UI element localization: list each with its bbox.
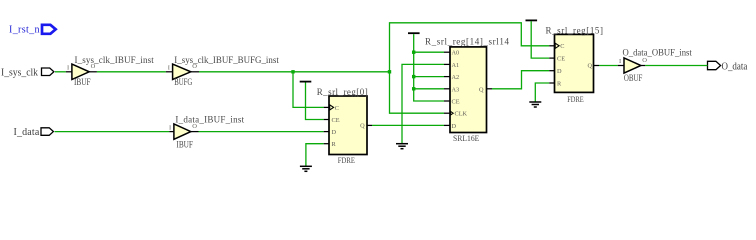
svg-text:Q: Q (479, 86, 484, 93)
stub SRL D (444, 124, 450, 126)
svg-text:I_sys_clk_IBUF_inst: I_sys_clk_IBUF_inst (75, 55, 155, 65)
svg-text:I: I (619, 58, 621, 65)
svg-text:I: I (67, 65, 69, 72)
wire OBUF out to O_data port (645, 65, 707, 67)
svg-text:CE: CE (557, 56, 565, 63)
ground below FDRE0 (300, 166, 312, 171)
junction VCC A2 (412, 75, 415, 78)
wire clock branch down to SRL16E CLK (390, 72, 445, 113)
svg-text:Q: Q (587, 62, 592, 69)
svg-text:A2: A2 (452, 74, 460, 81)
stub FDRE15 C (549, 45, 554, 47)
stub IBUF2 in (169, 131, 174, 133)
svg-text:A0: A0 (452, 50, 460, 57)
wire VCC to FDRE15 CE (531, 21, 549, 58)
svg-text:I_sys_clk: I_sys_clk (1, 67, 38, 78)
svg-text:O_data: O_data (722, 62, 748, 73)
stub FDRE0 CE (324, 119, 329, 121)
wire VCC branch to A0 (414, 51, 444, 53)
stub FDRE15 D (549, 70, 554, 72)
svg-text:O_data_OBUF_inst: O_data_OBUF_inst (623, 48, 693, 58)
stub SRL A0 (444, 51, 450, 53)
buffer IBUF I_sys_clk_IBUF_inst (67, 55, 154, 87)
svg-text:R_srl_reg[14]_srl14: R_srl_reg[14]_srl14 (425, 37, 510, 47)
ground below FDRE15 (529, 102, 541, 107)
svg-text:R_srl_reg[15]: R_srl_reg[15] (546, 26, 604, 36)
wire clock net: BUFG out main trunk (199, 71, 390, 73)
power VCC bar for SRL16E (408, 32, 420, 34)
svg-text:FDRE: FDRE (567, 95, 584, 104)
pin stubs black (66, 46, 645, 144)
svg-text:I_data_IBUF_inst: I_data_IBUF_inst (175, 114, 244, 124)
stub SRL A2 (444, 76, 450, 78)
junction clock main (388, 70, 391, 73)
stub IBUF1 out (89, 71, 97, 73)
svg-text:SRL16E: SRL16E (453, 134, 479, 143)
svg-text:Q: Q (360, 123, 365, 130)
svg-text:I_rst_n: I_rst_n (9, 25, 40, 36)
wire IBUF out to BUFG in (97, 71, 166, 73)
stub FDRE15 Q (594, 65, 600, 67)
port I_rst_n (selected, blue) (9, 25, 56, 36)
svg-text:C: C (335, 105, 339, 112)
svg-text:D: D (332, 129, 337, 136)
buffer OBUF O_data_OBUF_inst (619, 48, 692, 84)
wire FDRE15 Q to OBUF (599, 65, 618, 67)
wire I_data IBUF out to FDRE0 D (199, 131, 324, 133)
power VCC bar for FDRE15 CE (526, 20, 538, 22)
ground below SRL16E (396, 144, 408, 149)
svg-text:D: D (557, 68, 562, 75)
stub FDRE0 R (324, 143, 329, 145)
svg-text:C: C (560, 43, 564, 50)
flip-flop FDRE R_srl_reg[0] (317, 87, 368, 165)
stub FDRE0 C (324, 106, 329, 108)
svg-text:OBUF: OBUF (624, 73, 643, 83)
wire I_data port to IBUF (55, 131, 170, 133)
svg-text:FDRE: FDRE (338, 156, 355, 165)
stub SRL Q (487, 88, 493, 90)
port I_sys_clk (1, 67, 54, 78)
svg-text:A3: A3 (452, 86, 460, 93)
stub FDRE0 D (324, 131, 329, 133)
junction VCC A0 (412, 51, 415, 54)
junction VCC A3 (412, 87, 415, 90)
svg-text:CE: CE (332, 117, 340, 124)
buffer BUFG I_sys_clk_IBUF_BUFG_inst (168, 55, 280, 87)
wire VCC stem to SRL16E CE with branches (414, 34, 444, 101)
svg-text:D: D (452, 123, 457, 130)
stub BUFG out (191, 71, 199, 73)
wire SRL16E A1 to ground (402, 64, 444, 143)
wire FDRE0 Q to SRL16E D (372, 124, 444, 126)
stub SRL CE (444, 100, 450, 102)
svg-text:I_sys_clk_IBUF_BUFG_inst: I_sys_clk_IBUF_BUFG_inst (174, 55, 279, 65)
junction clock/FDRE0 (291, 70, 294, 73)
stub OBUF in (618, 65, 624, 67)
stub FDRE15 CE (549, 57, 554, 59)
wire I_sys_clk port to IBUF (55, 71, 66, 73)
svg-text:IBUF: IBUF (74, 77, 91, 87)
svg-text:CLK: CLK (455, 111, 468, 118)
wire FDRE0 R to ground (306, 144, 324, 166)
svg-text:I: I (169, 124, 171, 131)
stub IBUF2 out (191, 131, 199, 133)
stub OBUF out (641, 65, 645, 67)
svg-text:I_data: I_data (14, 127, 40, 138)
svg-text:BUFG: BUFG (174, 77, 192, 87)
buffer IBUF I_data_IBUF_inst (169, 114, 245, 149)
svg-text:R_srl_reg[0]: R_srl_reg[0] (317, 87, 368, 97)
wire FDRE15 R to ground (535, 83, 549, 102)
svg-text:IBUF: IBUF (176, 139, 193, 149)
wire VCC to FDRE0 CE (306, 83, 324, 120)
stub BUFG in (166, 71, 173, 73)
stub SRL A1 (444, 63, 450, 65)
port O_data (708, 61, 748, 72)
wire VCC branch to A2 (414, 76, 444, 78)
stub FDRE15 R (549, 82, 554, 84)
stub FDRE0 Q (367, 124, 372, 126)
stub SRL CLK (444, 112, 450, 114)
wire clock branch up/over to FDRE R_srl_reg[15] C (390, 23, 550, 72)
stub IBUF1 in (66, 71, 72, 73)
port I_data (14, 127, 54, 138)
power VCC bar for FDRE0 CE (300, 81, 312, 83)
svg-text:I: I (168, 65, 170, 72)
wire SRL16E Q to FDRE15 D (492, 71, 549, 89)
svg-text:O: O (642, 57, 647, 64)
wire VCC branch to A3 (414, 88, 444, 90)
stub SRL A3 (444, 88, 450, 90)
shift register SRL16E R_srl_reg[14]_srl14 (425, 37, 510, 144)
svg-text:CE: CE (452, 99, 460, 106)
flip-flop FDRE R_srl_reg[15] (546, 26, 604, 104)
wire clock branch to FDRE R_srl_reg[0] C (293, 72, 324, 108)
svg-text:A1: A1 (452, 62, 460, 69)
